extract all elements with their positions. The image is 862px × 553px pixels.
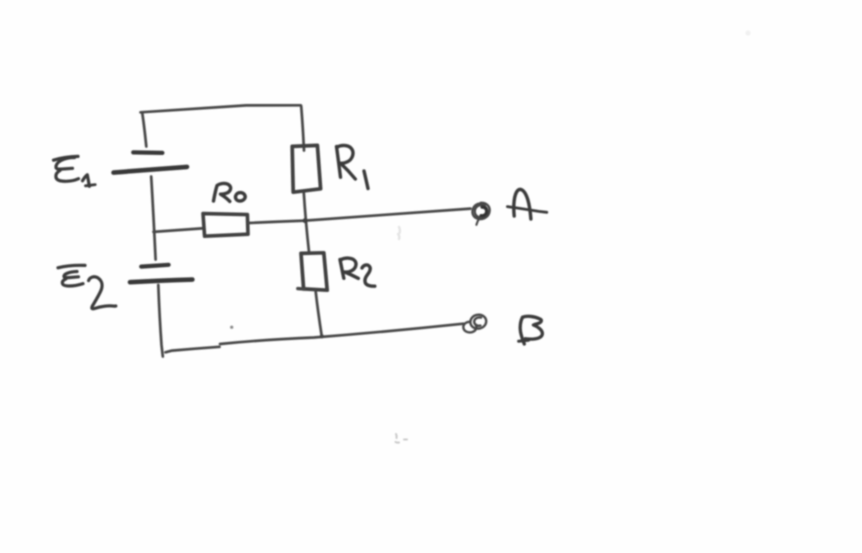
wire R1 top — [301, 106, 304, 150]
wire E1-E2 vertical — [151, 177, 155, 260]
label R1 — [337, 145, 369, 188]
resistor R1 — [292, 145, 320, 192]
terminal A — [472, 203, 489, 225]
wire bottom left segment — [166, 347, 220, 353]
label R2 — [340, 258, 375, 286]
label B — [519, 316, 543, 344]
node junction blob — [303, 218, 308, 223]
bottom junction blob — [320, 334, 324, 338]
stray faint mark top right — [745, 30, 750, 35]
terminal B — [463, 315, 486, 333]
wire bottom right segment (to B) — [220, 324, 464, 344]
label E2 — [58, 265, 116, 309]
label R0 — [214, 183, 246, 201]
battery E1 bottom plate — [114, 167, 188, 173]
resistor R2 — [301, 253, 327, 290]
stray faint smudge near node — [398, 227, 400, 239]
wire R1 to R2 (through node) — [304, 193, 309, 252]
wire top horizontal (E1 top to R1 top) — [141, 105, 301, 112]
label A — [507, 189, 546, 219]
stray pencil dot — [230, 326, 233, 329]
battery E2 top plate — [141, 265, 168, 267]
battery E1 top plate — [133, 150, 162, 155]
resistor R0 — [203, 214, 248, 237]
stray faint smudge — [396, 434, 408, 443]
battery E2 bottom plate — [130, 280, 192, 283]
wire R0 right to node to terminal A — [249, 209, 471, 223]
wire R2 bottom — [316, 291, 322, 337]
wire E2 bottom — [158, 285, 163, 357]
wire R0 left — [154, 228, 203, 232]
label E1 — [54, 156, 96, 186]
wire E1 top stub — [142, 113, 146, 147]
